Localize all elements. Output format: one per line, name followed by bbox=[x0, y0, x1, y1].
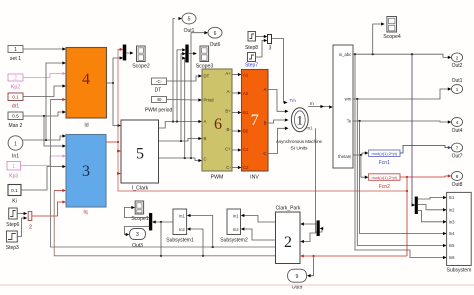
wire wm net to Out1 bbox=[353, 87, 451, 100]
svg-text:thetam: thetam bbox=[338, 154, 352, 159]
svg-text:4: 4 bbox=[82, 71, 90, 88]
svg-text:In6: In6 bbox=[449, 255, 455, 260]
function block Fcn1 bbox=[369, 150, 400, 166]
svg-text:Iq: Iq bbox=[83, 210, 87, 216]
svg-text:PWM period: PWM period bbox=[145, 108, 173, 114]
svg-text:B1: B1 bbox=[243, 110, 249, 115]
wire demux2 to Clark_Park in1 bbox=[300, 222, 317, 225]
wire is_abc down to right mux bbox=[412, 54, 416, 206]
wire Clark_Park out2 to Subsystem2 In2 bbox=[241, 227, 276, 240]
svg-text:Clark_Park: Clark_Park bbox=[276, 206, 301, 212]
demux currents to Clark_Park bbox=[317, 221, 319, 236]
svg-text:m1: m1 bbox=[307, 126, 314, 131]
svg-text:1: 1 bbox=[14, 141, 17, 147]
outport Out5 bbox=[182, 13, 196, 34]
svg-text:Id: Id bbox=[84, 123, 88, 129]
outport Out7 bbox=[451, 143, 462, 159]
wire bus to Subsystem1 In2 bbox=[187, 227, 203, 255]
wire Step3 to mux2 bbox=[17, 216, 27, 236]
wire is_abc down to Subsystem In6 bbox=[355, 54, 447, 259]
wire PWM block ports bbox=[202, 69, 232, 181]
svg-text:6: 6 bbox=[214, 116, 222, 133]
outport Out6 bbox=[208, 27, 222, 47]
svg-text:B2: B2 bbox=[243, 129, 249, 134]
svg-text:0.1: 0.1 bbox=[11, 188, 18, 194]
wire Te down to Subsystem In4 bbox=[360, 121, 447, 235]
step source Step6 bbox=[6, 208, 19, 228]
svg-text:C-: C- bbox=[226, 165, 231, 170]
wire mux to Scope3 bbox=[188, 52, 197, 55]
svg-text:B: B bbox=[204, 136, 207, 141]
svg-text:C: C bbox=[263, 151, 266, 156]
wire demux to In1 bbox=[417, 196, 446, 199]
svg-text:In1: In1 bbox=[179, 214, 185, 219]
subsystem block INV (7) bbox=[242, 70, 269, 181]
outport Out1 bbox=[451, 78, 462, 94]
svg-text:m: m bbox=[310, 101, 314, 106]
svg-text:C: C bbox=[204, 157, 207, 162]
svg-text:Scope3: Scope3 bbox=[196, 63, 214, 69]
wire In1 to Iq.in1 bbox=[23, 134, 66, 141]
svg-text:B: B bbox=[264, 121, 267, 126]
wire mux2 to Iq.in6 bbox=[32, 200, 66, 216]
subsystem block Subsystem1 bbox=[166, 209, 194, 244]
svg-text:2: 2 bbox=[14, 76, 17, 82]
step source Step3 bbox=[6, 231, 19, 251]
svg-text:dr1: dr1 bbox=[12, 104, 19, 110]
svg-text:9: 9 bbox=[296, 274, 299, 280]
svg-text:wm: wm bbox=[345, 97, 352, 102]
wire wm down to Subsystem In5 bbox=[357, 99, 446, 247]
svg-text:4: 4 bbox=[456, 120, 459, 125]
wire demux2 to Clark_Park in2 bbox=[300, 233, 317, 243]
outport Out8 bbox=[451, 172, 462, 188]
demux Scope1 input bbox=[149, 214, 151, 231]
svg-text:In4: In4 bbox=[449, 231, 455, 236]
wire theta to Clark_Park and In6 bbox=[300, 254, 407, 257]
svg-text:Out1: Out1 bbox=[452, 78, 463, 84]
constant PWM period bbox=[145, 97, 173, 114]
wire riser to mux Scope3 in2 bbox=[181, 52, 186, 141]
svg-text:Step8: Step8 bbox=[245, 45, 258, 51]
svg-text:2: 2 bbox=[284, 234, 292, 251]
wire PWMperiod to PWM.Priod bbox=[167, 98, 203, 101]
wire demux to In3 bbox=[417, 211, 446, 224]
svg-text:1: 1 bbox=[456, 87, 459, 92]
wire set1 to Id.in1 bbox=[23, 47, 66, 50]
subsystem block I_Clark (5) bbox=[121, 120, 159, 191]
svg-text:3: 3 bbox=[136, 232, 139, 238]
subsystem block Subsystem2 bbox=[220, 209, 248, 244]
svg-text:Step6: Step6 bbox=[6, 222, 19, 228]
svg-text:Out3: Out3 bbox=[132, 243, 143, 249]
wire Kp2 to Id.in3 bbox=[23, 72, 66, 78]
svg-text:set 1: set 1 bbox=[10, 56, 21, 62]
svg-text:A: A bbox=[204, 119, 207, 124]
constant Kp2 bbox=[8, 74, 23, 91]
wire Ki to Iq.in4 bbox=[21, 165, 66, 190]
wire I_Clark out1 to PWM.A bbox=[159, 120, 203, 128]
svg-text:Man 2: Man 2 bbox=[9, 123, 23, 129]
svg-text:Out2: Out2 bbox=[452, 63, 463, 69]
svg-text:Out1: Out1 bbox=[184, 28, 195, 34]
svg-text:In2: In2 bbox=[179, 227, 185, 232]
svg-text:0.5: 0.5 bbox=[12, 114, 19, 120]
wire dr1 to Id.in4 bbox=[23, 84, 66, 96]
svg-text:Priod: Priod bbox=[204, 98, 215, 103]
function block Fcn2 bbox=[369, 174, 400, 190]
svg-text:8: 8 bbox=[456, 174, 459, 179]
wire demux to In2 bbox=[417, 205, 446, 212]
svg-text:Out7: Out7 bbox=[452, 153, 463, 159]
svg-text:I_Clark: I_Clark bbox=[132, 185, 149, 191]
svg-text:1: 1 bbox=[14, 47, 17, 53]
svg-text:C2: C2 bbox=[243, 165, 249, 170]
svg-text:Out4: Out4 bbox=[452, 128, 463, 134]
wire INV.C to machine C bbox=[268, 127, 289, 154]
wire DT to PWM.DT bbox=[167, 74, 203, 81]
wire I_Clark out3 to PWM.C bbox=[159, 157, 203, 162]
constant dr1 value 0.1 bbox=[8, 93, 23, 110]
svg-text:7: 7 bbox=[251, 112, 259, 129]
svg-text:mod(u(1),2*pi): mod(u(1),2*pi) bbox=[372, 151, 398, 156]
svg-text:C+: C+ bbox=[225, 147, 231, 152]
scope Scope4 bbox=[383, 17, 401, 40]
svg-text:In2: In2 bbox=[449, 207, 455, 212]
svg-text:A-: A- bbox=[227, 89, 232, 94]
constant Kp3 bbox=[7, 162, 21, 180]
subsystem block Iq (3) bbox=[66, 135, 106, 216]
wire Clark_Park out1 to Subsystem2 In1 bbox=[241, 214, 276, 222]
wires PWM outputs to INV inputs bbox=[232, 73, 242, 169]
svg-text:mod(u(1),2*pi): mod(u(1),2*pi) bbox=[372, 175, 398, 180]
wire mux to Scope2 bbox=[126, 51, 134, 54]
wire Fcn1 to Out7 bbox=[400, 146, 451, 154]
svg-text:In5: In5 bbox=[449, 243, 455, 248]
wire is_abc net bbox=[353, 53, 451, 59]
svg-text:In3: In3 bbox=[449, 219, 455, 224]
svg-text:Subsystem2: Subsystem2 bbox=[220, 238, 248, 244]
mux 3 bbox=[268, 35, 272, 52]
svg-text:In1: In1 bbox=[449, 195, 455, 200]
asynchronous machine block (1) bbox=[276, 98, 322, 152]
wire mux3 to machine Tm bbox=[272, 39, 288, 105]
svg-text:2: 2 bbox=[456, 55, 459, 60]
svg-text:PWM: PWM bbox=[211, 175, 224, 181]
svg-text:DT: DT bbox=[155, 88, 162, 94]
svg-text:B-: B- bbox=[227, 127, 232, 132]
wire Subsystem1 out to demux bbox=[152, 220, 173, 255]
wire is_abc to Scope4 bbox=[373, 22, 385, 54]
svg-text:DT: DT bbox=[204, 74, 210, 79]
wire I_Clark out2 to PWM.B bbox=[159, 137, 203, 142]
svg-text:Scope2: Scope2 bbox=[132, 63, 150, 69]
constant Ki value 0.1 bbox=[8, 185, 21, 205]
svg-text:2: 2 bbox=[29, 225, 32, 231]
wire thetam to Fcn2 bbox=[361, 155, 369, 179]
machines measurement demux block bbox=[333, 45, 353, 168]
wire Man2 branch to Iq.in2 bbox=[44, 116, 66, 148]
scope Scope2 bbox=[132, 46, 150, 69]
wire machine m to measurement demux bbox=[308, 105, 333, 109]
wire riser to outport Out5 bbox=[173, 17, 182, 122]
wire bus d-current feedback bbox=[50, 98, 275, 248]
mux 2 bbox=[28, 212, 32, 231]
svg-text:Ki: Ki bbox=[12, 199, 17, 205]
outport Out3 bbox=[130, 229, 146, 250]
wire In1 branch to Id.in2 bbox=[46, 61, 66, 140]
svg-text:Fcn2: Fcn2 bbox=[379, 184, 390, 190]
wire theta to Out9 bbox=[307, 256, 314, 277]
faint separator line bbox=[0, 284, 474, 286]
wire riser to mux Scope3 in1 bbox=[177, 48, 186, 121]
svg-text:6: 6 bbox=[214, 31, 217, 37]
svg-text:Tm: Tm bbox=[290, 98, 297, 103]
svg-text:A+: A+ bbox=[225, 71, 231, 76]
svg-text:3: 3 bbox=[269, 46, 272, 52]
constant Man 2 value 0.5 bbox=[8, 112, 23, 129]
svg-text:5: 5 bbox=[136, 145, 144, 162]
svg-text:SI Units: SI Units bbox=[290, 146, 308, 152]
wire INV.B to machine B bbox=[268, 118, 289, 123]
mux Scope3 input bbox=[186, 45, 188, 62]
svg-text:3: 3 bbox=[82, 163, 90, 180]
wire machine m1 to current demux bbox=[315, 128, 323, 232]
svg-text:Out8: Out8 bbox=[452, 182, 463, 188]
svg-text:Subsystem1: Subsystem1 bbox=[166, 238, 194, 244]
svg-text:40: 40 bbox=[157, 97, 162, 102]
svg-text:A1: A1 bbox=[243, 73, 249, 78]
wire theta feedback red net bbox=[106, 48, 407, 191]
scope Scope1 bbox=[131, 201, 149, 222]
svg-text:Kp2: Kp2 bbox=[11, 85, 20, 91]
outport Out9 bbox=[288, 269, 307, 290]
outport Out2 bbox=[451, 53, 462, 69]
svg-text:A: A bbox=[264, 87, 267, 92]
svg-text:INV: INV bbox=[250, 175, 259, 181]
step source Step7 bbox=[245, 53, 258, 69]
svg-text:is_abc: is_abc bbox=[339, 52, 352, 57]
wire Step6 to mux2 bbox=[17, 212, 27, 215]
wire thetam to Fcn1 bbox=[353, 151, 368, 156]
inport In1 bbox=[8, 136, 23, 160]
wire Te net to Out4 bbox=[353, 120, 451, 124]
wire Man2 to Id.in6 bbox=[23, 110, 66, 117]
scope Scope3 bbox=[196, 46, 214, 69]
svg-text:0.1: 0.1 bbox=[12, 95, 19, 100]
wire riser to outport Out6 bbox=[191, 31, 208, 158]
svg-text:In1: In1 bbox=[12, 154, 19, 160]
subsystem block Subsystem bbox=[447, 192, 472, 273]
svg-text:5: 5 bbox=[188, 17, 191, 23]
svg-text:A2: A2 bbox=[243, 91, 249, 96]
outport Out4 bbox=[451, 118, 462, 134]
svg-text:C1: C1 bbox=[243, 147, 249, 152]
svg-text:Fcn1: Fcn1 bbox=[379, 160, 390, 166]
wire demux to Scope1 bbox=[124, 206, 149, 218]
svg-text:B+: B+ bbox=[225, 109, 231, 114]
wire bus to Subsystem1 In1 bbox=[187, 214, 213, 247]
wire riser to mux Scope3 in3 bbox=[182, 56, 186, 158]
svg-text:Out6: Out6 bbox=[210, 42, 221, 48]
demux currents to Subsystem bbox=[415, 197, 417, 214]
constant DT bbox=[152, 78, 167, 94]
svg-text:Scope4: Scope4 bbox=[383, 34, 401, 40]
wire Kp3 to Iq.in3 bbox=[21, 154, 67, 165]
wire Fcn2 to Out8 and theta vertical bbox=[400, 174, 451, 256]
wire Id output to mux and I_Clark bbox=[107, 56, 124, 127]
mux Scope2 input bbox=[123, 45, 126, 60]
svg-text:7: 7 bbox=[456, 146, 459, 151]
wire Step7 to mux3 bbox=[256, 39, 268, 57]
step source Step8 bbox=[245, 32, 258, 52]
svg-text:1: 1 bbox=[12, 164, 15, 170]
svg-text:Kp3: Kp3 bbox=[9, 174, 18, 180]
svg-text:1: 1 bbox=[297, 113, 304, 128]
svg-text:Te: Te bbox=[347, 119, 352, 124]
subsystem block Id (4) bbox=[66, 48, 107, 129]
svg-text:Step7: Step7 bbox=[245, 63, 258, 69]
wire demux to Out3 bbox=[124, 227, 149, 237]
wire Step8 to mux3 bbox=[256, 35, 268, 38]
constant set 1 bbox=[8, 46, 23, 63]
svg-text:-C-: -C- bbox=[156, 79, 163, 84]
wire bus q-current feedback bbox=[54, 189, 275, 257]
wire INV.A to machine A bbox=[268, 90, 289, 113]
svg-text:In2: In2 bbox=[233, 227, 239, 232]
svg-text:Subsystem: Subsystem bbox=[447, 268, 472, 274]
svg-text:In1: In1 bbox=[233, 214, 239, 219]
svg-text:Step3: Step3 bbox=[6, 245, 19, 251]
svg-text:Scope1: Scope1 bbox=[131, 216, 149, 222]
subsystem block Clark_Park (2) bbox=[276, 206, 301, 264]
